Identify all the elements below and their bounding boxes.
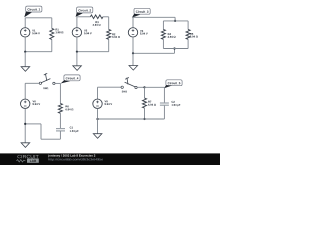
wire R5 top (187, 21, 189, 30)
junction C3 bottom (173, 47, 175, 49)
wire left upper C1 (24, 18, 26, 28)
resistor R4 (161, 30, 165, 40)
wire right lower C2 (108, 39, 110, 51)
wire bottom C2 (77, 51, 109, 53)
label R3 (93, 21, 101, 26)
junction C4 (24, 123, 26, 125)
wire bottom rail C5 (98, 118, 165, 120)
wire left lower C5 (97, 109, 99, 134)
wire left lower C4 (24, 109, 26, 143)
node label Circuit_5 (164, 80, 182, 88)
resistor R6 (58, 104, 62, 114)
wire R7 to C2 top (145, 86, 165, 88)
junction C5 bottom R7 (143, 118, 145, 120)
voltage source V6 (21, 99, 30, 108)
wire right upper C4 (59, 83, 61, 103)
footer url line (48, 158, 103, 161)
wire top left C4 (25, 82, 39, 84)
wire bottom dogleg C4 (25, 124, 60, 139)
wire bottom C1 (25, 51, 52, 53)
wire to ground C3 (132, 53, 134, 65)
wire switch to R7 C5 (137, 86, 144, 88)
label R5 (190, 33, 198, 38)
label V6 (33, 100, 41, 105)
label SW2 (122, 91, 127, 93)
ground C2 (73, 66, 82, 71)
junction C3 bottom left (132, 52, 134, 54)
wire box top C3 (163, 20, 188, 22)
label C2 (172, 101, 181, 107)
label R2 (112, 33, 120, 38)
wire top C1 (25, 17, 52, 19)
wire R7 branch bottom (144, 108, 146, 119)
resistor R3 (90, 15, 103, 19)
CircuitLab logo zigzag (17, 160, 26, 162)
wire box bottom C3 (163, 48, 188, 50)
label SW1 (43, 87, 48, 89)
wire R4 bottom (162, 39, 164, 48)
wire C1cap down (59, 131, 61, 139)
CircuitLab logo LAB box (27, 159, 39, 163)
label V2 (84, 30, 92, 35)
wire R7 branch top (144, 87, 146, 98)
wire top left C5 (98, 86, 122, 88)
junction C1 bottom (24, 51, 26, 53)
ground C4 (21, 143, 30, 148)
wire R6 to C1cap (59, 113, 61, 128)
resistor R1 (50, 28, 54, 39)
voltage source V8 (93, 99, 102, 108)
label C1 (70, 127, 79, 133)
wire stub top C3 (174, 17, 176, 21)
label V8 (105, 100, 113, 105)
CircuitLab logo text CIRCUIT (17, 155, 38, 158)
label R6 (65, 105, 73, 110)
wire R4 top (162, 21, 164, 30)
junction C5 top R7 (143, 86, 145, 88)
wire right upper C2 (108, 17, 110, 30)
footer credit line (48, 154, 95, 157)
wire top left C2 (77, 16, 91, 18)
junction C3 top (174, 20, 176, 22)
label R1 (56, 29, 64, 34)
wire left lower C1 (24, 37, 26, 52)
resistor R7 (143, 98, 147, 108)
resistor R2 (107, 30, 111, 40)
wire to ground C1 (24, 52, 26, 67)
voltage source V3 (128, 28, 137, 37)
node label Circuit_4 (61, 75, 81, 84)
wire switch to corner C4 (55, 82, 60, 84)
wire right lower C1 (51, 39, 53, 51)
wire C2 branch bottom (163, 106, 165, 119)
ground C3 (129, 66, 138, 71)
voltage source V2 (72, 28, 81, 37)
wire top C3 (133, 16, 175, 18)
wire bottom rail C3 (133, 52, 175, 54)
ground C5 (93, 134, 102, 139)
wire left lower C3 (132, 37, 134, 53)
resistor R5 (186, 30, 190, 40)
switch SW1 (39, 73, 55, 84)
node label Circuit_2 (76, 7, 93, 17)
junction C2 bottom (76, 51, 78, 53)
wire left upper C4 (24, 83, 26, 99)
label R7 (148, 101, 156, 106)
wire left upper C2 (76, 17, 78, 28)
junction C5 bottom left (96, 118, 98, 120)
capacitor C2 (160, 103, 169, 105)
wire left upper C3 (132, 17, 134, 28)
wire C2 branch top (163, 87, 165, 103)
wire to ground C2 (76, 52, 78, 66)
wire right upper C1 (51, 18, 53, 29)
wire left lower C2 (76, 37, 78, 52)
voltage source V1 (21, 28, 30, 37)
wire left upper C5 (97, 87, 99, 99)
label V3 (140, 30, 148, 35)
wire stub bottom C3 (174, 49, 176, 54)
node label Circuit_1 (24, 6, 42, 17)
footer black bar (0, 153, 220, 165)
ground C1 (21, 67, 30, 72)
node label Circuit_3 (132, 8, 150, 17)
label R4 (168, 33, 176, 38)
wire top right C2 (103, 16, 109, 18)
wire R5 bottom (187, 39, 189, 48)
label V1 (32, 30, 40, 35)
capacitor C1 (56, 129, 65, 131)
switch SW2 (121, 78, 137, 89)
